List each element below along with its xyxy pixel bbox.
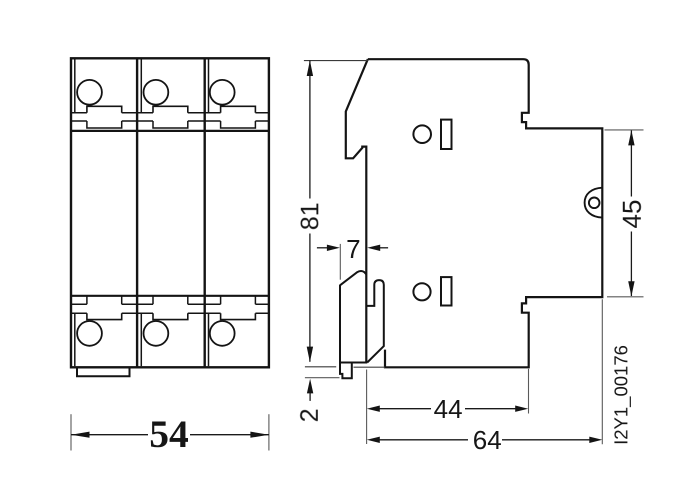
wire segment body bottom left stub (354, 366, 386, 368)
front view bottom tab (77, 367, 130, 376)
front view top band full line (71, 130, 269, 132)
dimension 64 arrowheads (367, 437, 603, 443)
front view top circles (77, 80, 235, 105)
dimension 54 extension lines (71, 414, 269, 450)
side view bottom small circle (413, 283, 430, 300)
side view screw mount hole (589, 198, 600, 209)
svg-text:64: 64 (473, 425, 502, 455)
dimension 2 arrow and line (309, 392, 311, 401)
side view top small rectangle (441, 120, 452, 149)
dimension 45 arrowheads (628, 130, 634, 296)
dimension 7 extension line (339, 244, 341, 280)
dimension 7 arrowheads (327, 245, 380, 251)
front view bottom band lines (71, 296, 269, 313)
dimension 81 extension line top (304, 60, 368, 62)
svg-text:I2Y1_00176: I2Y1_00176 (610, 345, 632, 445)
side view top small circle (413, 125, 431, 143)
front view bottom band full line (71, 295, 269, 297)
dimension 81 line (309, 60, 311, 361)
dimension 2 upper tick line (305, 366, 336, 368)
dimension 45 extension lines (605, 130, 644, 297)
dimension 54 line (71, 434, 269, 436)
side view DIN clip bottom edge (340, 362, 367, 364)
front view inner verticals bottom (75, 313, 209, 366)
side view DIN clip slide left edge and foot (340, 285, 352, 379)
dimension 45 line (630, 130, 632, 296)
dimension 7 lines (317, 247, 388, 249)
svg-text:45: 45 (617, 200, 647, 229)
dimension 44 extension lines (367, 369, 529, 444)
side view clip hook (366, 280, 384, 362)
dimension 64 extension line (601, 299, 603, 444)
front view inner verticals top (75, 59, 209, 112)
dimension 81 arrowheads (307, 60, 313, 362)
svg-text:81: 81 (296, 202, 324, 230)
front view bottom terminal plateaus (87, 313, 256, 319)
front view top band lines (71, 113, 269, 128)
dimension 44 lines (380, 408, 516, 410)
front view pole divider 2 (203, 58, 205, 367)
dimension 2 lower tick line (305, 377, 340, 379)
front view outer body (71, 58, 269, 367)
dimension 44 arrowheads (367, 406, 528, 412)
svg-text:54: 54 (149, 412, 189, 456)
dimension 54 arrowheads (71, 432, 269, 438)
front view top terminal plateaus (87, 106, 256, 113)
side view bottom small rectangle (441, 277, 452, 305)
front view bottom circles (77, 321, 235, 346)
dimension 64 lines (380, 439, 590, 441)
front view pole divider 1 (136, 58, 138, 367)
side view DIN clip slide top (340, 271, 366, 285)
side view main outline (368, 59, 603, 367)
svg-text:2: 2 (296, 408, 324, 422)
svg-text:7: 7 (346, 234, 360, 264)
side view screw mount tab (585, 188, 603, 218)
svg-text:44: 44 (434, 394, 463, 424)
side view left edge with claw (346, 59, 368, 362)
